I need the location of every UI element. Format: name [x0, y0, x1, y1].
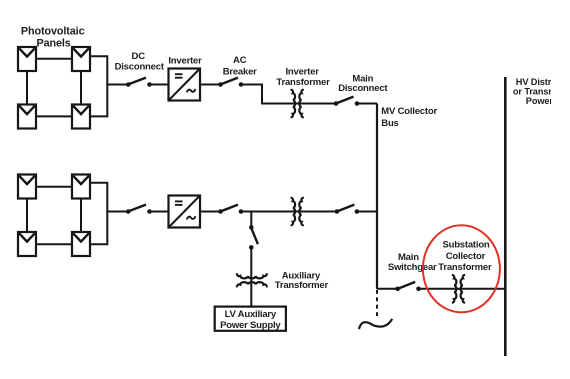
wire HV bus vertical [504, 77, 507, 356]
wire switchgear through substation transformer to HV bus [419, 288, 506, 290]
transformer T3 auxiliary transformer [237, 274, 267, 286]
continuation squiggle [359, 319, 392, 329]
svg-text:LV Auxiliary: LV Auxiliary [225, 309, 277, 320]
switch AC breaker row1 [218, 78, 243, 87]
svg-text:Substation: Substation [442, 240, 489, 251]
wire row2 panel bottom link [36, 243, 72, 245]
inverter U1 row1 [169, 69, 201, 101]
svg-text:Collector: Collector [446, 251, 486, 262]
wire row1 panel top link [36, 58, 72, 60]
label DC Disconnect [115, 51, 165, 73]
svg-text:Transformer: Transformer [275, 280, 329, 291]
PV panel P6 (row2 top-right) [72, 175, 90, 199]
switch main disconnect row2 [335, 205, 360, 214]
wire auxiliary branch upper [250, 212, 252, 229]
wire row1 string feeder loop [90, 56, 108, 116]
svg-text:Power: Power [526, 96, 554, 106]
transformer T2 inverter transformer row2 [292, 198, 303, 226]
wire MV bus dashed continuation [376, 290, 378, 317]
label Main Disconnect [338, 73, 388, 94]
switch DC disconnect row2 [126, 205, 152, 214]
wire MV collector bus vertical [376, 104, 378, 290]
label Photovoltaic Panels [21, 26, 85, 50]
svg-text:AC: AC [233, 55, 247, 66]
wire AC breaker through inverter transformer row2 [241, 211, 336, 213]
wire row1 panel bottom link [36, 115, 72, 117]
PV panel P5 (row2 top-left) [18, 175, 36, 199]
red highlight ellipse [423, 225, 500, 312]
PV panel P3 (row1 bottom-left) [18, 105, 36, 129]
svg-text:Breaker: Breaker [223, 66, 257, 77]
wire DC disconnect to inverter row1 [150, 84, 169, 86]
label Inverter Transformer [276, 66, 330, 87]
label MV Collector Bus [381, 106, 437, 129]
label Main Switchgear [388, 252, 437, 273]
wire AC breaker to inverter transformer row1 (with jog down) [241, 85, 336, 104]
switch AC breaker row2 [218, 205, 243, 214]
switch main switchgear [395, 282, 420, 291]
wire inverter to AC breaker row1 [200, 84, 221, 86]
transformer T4 substation collector transformer [453, 275, 464, 303]
wire DC disconnect to inverter row2 [150, 211, 169, 213]
wire row1 string tap to DC disconnect [106, 84, 129, 86]
switch auxiliary [249, 225, 258, 250]
wire row2 panel top link [36, 186, 72, 188]
wire row1 panel left vertical [26, 71, 28, 105]
svg-text:MV Collector: MV Collector [381, 106, 437, 117]
LV auxiliary power supply box [215, 307, 286, 331]
svg-text:Power Supply: Power Supply [220, 320, 281, 331]
label Substation Collector Transformer [438, 240, 492, 273]
label AC Breaker [223, 55, 257, 77]
svg-text:Transformer: Transformer [276, 77, 330, 88]
wire row1 panel right vertical [80, 71, 82, 105]
switch main disconnect row1 [334, 97, 360, 106]
wire inverter to AC breaker row2 [200, 211, 221, 213]
inverter U2 row2 [169, 196, 201, 228]
svg-text:Switchgear: Switchgear [388, 262, 437, 273]
PV panel P7 (row2 bottom-left) [18, 232, 36, 256]
svg-text:or Transmi: or Transmi [513, 86, 559, 96]
svg-text:Photovoltaic: Photovoltaic [21, 26, 85, 38]
transformer T1 inverter transformer row1 [292, 90, 303, 118]
label Auxiliary Transformer [275, 270, 329, 291]
wire row2 panel left vertical [26, 199, 28, 233]
PV panel P4 (row1 bottom-right) [72, 105, 90, 129]
switch DC disconnect row1 [126, 78, 152, 87]
wire main disconnect to MV bus row1 [357, 103, 377, 105]
label HV Distribution or Transmission Power (cropped at figure edge) [513, 77, 560, 106]
PV panel P8 (row2 bottom-right) [72, 232, 90, 256]
svg-text:Disconnect: Disconnect [115, 62, 165, 73]
svg-text:DC: DC [132, 51, 146, 62]
wire auxiliary branch lower [250, 247, 252, 307]
wire main disconnect to MV bus row2 [357, 211, 377, 213]
wire row2 panel right vertical [80, 199, 82, 233]
PV panel P1 (row1 top-left) [18, 47, 36, 71]
wire MV bus to main switchgear [377, 288, 397, 290]
wire row2 string feeder loop [90, 183, 108, 245]
svg-text:Bus: Bus [381, 118, 398, 129]
wire row2 string tap to DC disconnect [106, 211, 129, 213]
PV panel P2 (row1 top-right) [72, 47, 90, 71]
svg-text:Inverter: Inverter [168, 55, 202, 66]
svg-text:Transformer: Transformer [438, 262, 492, 273]
svg-text:Inverter: Inverter [285, 66, 319, 77]
svg-text:Disconnect: Disconnect [338, 83, 388, 94]
svg-text:Panels: Panels [36, 38, 70, 50]
